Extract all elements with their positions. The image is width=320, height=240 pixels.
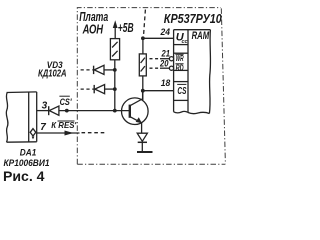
svg-text:18: 18 [161,78,171,88]
svg-text:CS: CS [177,86,186,97]
svg-text:WR: WR [176,54,184,63]
svg-text:КР537РУ10: КР537РУ10 [164,12,222,26]
svg-text:24: 24 [160,27,170,37]
svg-text:7: 7 [40,122,46,133]
svg-text:20: 20 [159,58,168,68]
svg-text:КД102А: КД102А [38,68,67,79]
svg-text:АОН: АОН [82,23,104,37]
svg-text:21: 21 [161,48,170,58]
svg-text:RAM: RAM [192,30,210,42]
svg-text:+5В: +5В [118,20,134,35]
svg-text:RD: RD [176,64,184,73]
svg-text:Рис. 4: Рис. 4 [3,168,45,184]
svg-text:DA1: DA1 [20,147,37,158]
svg-text:CS': CS' [60,97,73,108]
svg-text:cc: cc [182,39,188,45]
svg-text:3: 3 [42,100,48,111]
